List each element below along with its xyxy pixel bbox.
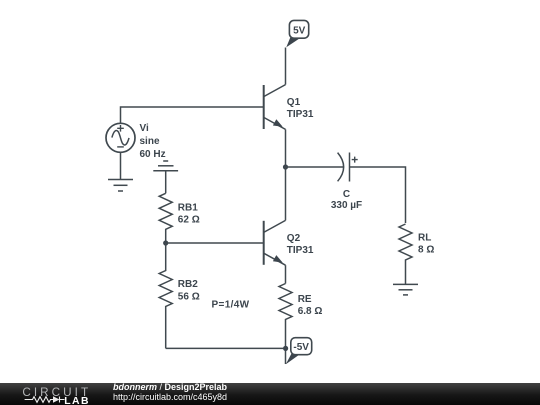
ground (under RL) xyxy=(393,284,418,295)
label Q1 TIP31 xyxy=(287,97,314,120)
svg-text:5V: 5V xyxy=(293,25,306,36)
wire output node to capacitor xyxy=(286,166,344,168)
label RB2 56 ohm xyxy=(178,279,200,303)
svg-text:330 µF: 330 µF xyxy=(331,200,362,211)
voltage source Vi xyxy=(106,123,135,152)
CircuitLab logo xyxy=(21,385,111,405)
svg-text:Vi: Vi xyxy=(140,123,149,134)
svg-text:P=1/4W: P=1/4W xyxy=(212,299,250,310)
wire top rail from Vi to Q1 base xyxy=(121,107,264,123)
wire bottom rail RB2 to -5V node xyxy=(166,347,286,349)
svg-text:sine: sine xyxy=(140,136,160,147)
svg-text:RE: RE xyxy=(298,294,312,305)
resistor RB2 xyxy=(159,243,172,348)
svg-text:TIP31: TIP31 xyxy=(287,109,314,120)
node junction -5V rail xyxy=(283,346,288,351)
svg-text:60 Hz: 60 Hz xyxy=(140,149,166,160)
transistor Q1 xyxy=(264,85,286,130)
svg-text:RL: RL xyxy=(418,233,431,244)
svg-text:RB1: RB1 xyxy=(178,203,198,214)
label RE 6.8 ohm xyxy=(298,294,323,317)
ground (inverted, above RB1) xyxy=(153,161,178,193)
wire Vi to ground xyxy=(120,152,122,179)
net flag -5V xyxy=(286,338,312,365)
svg-text:LAB: LAB xyxy=(64,396,90,405)
wire capacitor to RL xyxy=(350,167,406,223)
svg-text:8 Ω: 8 Ω xyxy=(418,245,434,256)
svg-text:Q1: Q1 xyxy=(287,97,301,108)
net flag 5V xyxy=(286,20,308,47)
resistor RL xyxy=(399,224,412,284)
wire base rail to Q2 xyxy=(166,242,264,244)
wire Q1 collector to 5V xyxy=(285,48,287,85)
resistor RE xyxy=(279,284,292,365)
resistor RB1 xyxy=(159,193,172,243)
transistor Q2 xyxy=(264,220,286,265)
label Vi sine 60 Hz xyxy=(140,123,166,160)
label RL 8 ohm xyxy=(418,233,434,256)
node junction RB1/RB2/base xyxy=(163,240,168,245)
footer bar xyxy=(0,383,540,405)
label RB1 62 ohm xyxy=(178,203,200,226)
footer text xyxy=(113,383,227,402)
svg-text:RB2: RB2 xyxy=(178,279,198,290)
wire Q1 emitter to output node xyxy=(285,129,287,167)
wire Q2 collector to output node xyxy=(285,167,287,220)
node junction output xyxy=(283,164,288,169)
ground (under Vi) xyxy=(108,180,133,192)
svg-text:TIP31: TIP31 xyxy=(287,245,314,256)
label C 330 uF xyxy=(331,189,362,211)
svg-text:62 Ω: 62 Ω xyxy=(178,215,200,226)
wire Q2 emitter to RE xyxy=(285,265,287,283)
svg-text:6.8 Ω: 6.8 Ω xyxy=(298,306,323,317)
capacitor C xyxy=(338,153,358,182)
svg-text:C: C xyxy=(343,189,350,200)
svg-text:56 Ω: 56 Ω xyxy=(178,292,200,303)
svg-text:Q2: Q2 xyxy=(287,233,301,244)
label Q2 TIP31 xyxy=(287,233,314,256)
svg-text:-5V: -5V xyxy=(293,342,309,353)
